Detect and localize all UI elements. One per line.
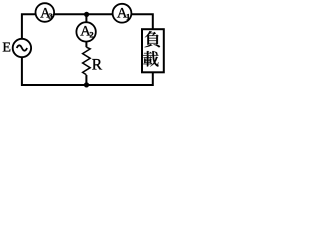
node junction dot top: [84, 12, 89, 17]
svg-text:3: 3: [49, 11, 53, 21]
wire middle branch: [85, 14, 87, 47]
load text char 載: [143, 51, 159, 67]
svg-text:E: E: [2, 41, 11, 56]
svg-text:1: 1: [126, 11, 130, 21]
wire outer loop: [22, 14, 153, 85]
load box: [142, 29, 164, 72]
svg-text:2: 2: [89, 30, 93, 40]
node junction dot bottom: [84, 82, 89, 87]
ammeter A2: [76, 22, 95, 41]
resistor R: [83, 47, 91, 75]
AC source E: [13, 39, 31, 57]
svg-text:R: R: [92, 56, 103, 73]
load text char 負: [145, 31, 161, 47]
ammeter A1: [113, 4, 132, 23]
wire resistor bottom lead: [85, 75, 87, 85]
ammeter A3: [36, 3, 55, 22]
